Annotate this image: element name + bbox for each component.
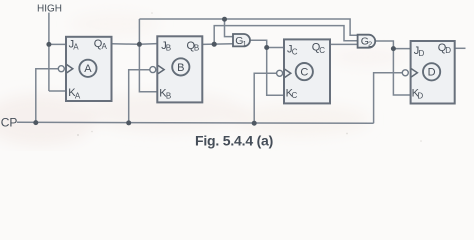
flip-flop D box	[402, 41, 454, 104]
node CP riser A	[33, 120, 38, 125]
svg-text:C: C	[292, 47, 298, 56]
flip-flop A box	[58, 37, 111, 101]
op circle B	[172, 58, 189, 75]
flip-flop C box	[277, 39, 330, 103]
clock bubble A	[58, 66, 64, 72]
svg-text:C: C	[319, 46, 325, 55]
clock bubble D	[402, 70, 408, 76]
op circle C	[296, 63, 313, 80]
svg-text:CP: CP	[1, 116, 18, 130]
node CP riser B	[126, 120, 131, 125]
node HIGH to J_A junction	[46, 42, 51, 47]
svg-text:A: A	[102, 42, 108, 51]
op circle D	[423, 63, 440, 80]
svg-text:D: D	[445, 46, 451, 55]
svg-text:1: 1	[243, 39, 247, 48]
wire top rail Q_A to G1 tap and G2 elbow	[139, 19, 357, 37]
svg-text:C: C	[292, 91, 298, 100]
clock triangle C	[285, 69, 291, 77]
wire clock riser D	[374, 73, 403, 124]
svg-text:B: B	[166, 91, 171, 100]
clock bubble B	[150, 67, 156, 73]
AND gate G2	[358, 35, 376, 49]
clock triangle B	[158, 65, 164, 73]
svg-text:B: B	[177, 62, 184, 74]
node Q_B branch junction	[212, 42, 217, 47]
clock bubble C	[277, 70, 283, 76]
node G1 out J_C/K_C junction	[264, 45, 269, 50]
wire Q_C to G2 bottom input	[330, 43, 357, 45]
clock triangle A	[67, 65, 73, 73]
svg-text:B: B	[194, 44, 199, 53]
flip-flop B box	[150, 36, 203, 102]
svg-text:HIGH: HIGH	[37, 3, 62, 14]
svg-text:A: A	[84, 63, 92, 75]
wire G1 output to J_C and K_C	[250, 40, 284, 95]
node CP riser C	[252, 121, 257, 126]
wire Q_B to G1 bottom input	[202, 43, 233, 46]
clock triangle D	[411, 69, 417, 77]
svg-text:A: A	[75, 91, 81, 100]
svg-text:D: D	[417, 92, 423, 101]
faint paper specks (decorative)	[77, 12, 422, 142]
wire Q_B branch to G2 middle input	[214, 26, 357, 45]
wire node B tie vertical and K_B tie	[139, 19, 157, 92]
svg-text:B: B	[166, 44, 171, 53]
background paper	[0, 0, 474, 151]
svg-text:2: 2	[368, 39, 372, 48]
svg-text:D: D	[419, 49, 425, 58]
wire CP rail	[17, 122, 374, 123]
wire clock riser A	[36, 69, 58, 123]
faint scan tint patches (decorative)	[0, 12, 406, 146]
svg-text:A: A	[73, 42, 79, 51]
node top rail G1 tap	[222, 17, 227, 22]
svg-text:D: D	[428, 67, 436, 79]
node G2 out J_D/K_D junction	[391, 46, 396, 51]
wire HIGH vertical to J_A and K_A	[49, 13, 67, 91]
svg-text:Fig. 5.4.4 (a): Fig. 5.4.4 (a)	[195, 132, 273, 148]
node Q_A to J_B junction	[137, 42, 142, 47]
wire G2 output to J_D and K_D	[375, 41, 410, 95]
op circle A	[79, 60, 96, 77]
wire Q_A to J_B	[112, 43, 158, 46]
AND gate G1	[233, 34, 250, 48]
svg-text:C: C	[300, 67, 308, 79]
wire clock riser B	[129, 70, 150, 123]
wire Q_D output stub	[455, 47, 466, 49]
wire clock riser C	[254, 73, 276, 123]
